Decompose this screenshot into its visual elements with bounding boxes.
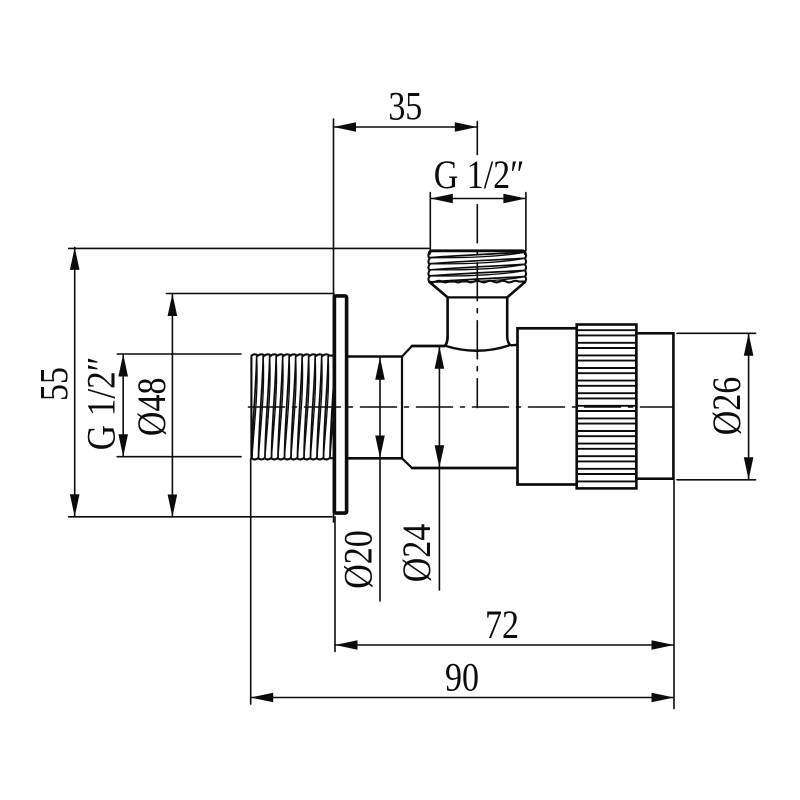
arrow O48 up [168,294,178,317]
arrow O24 down [435,445,445,468]
svg-text:Ø26: Ø26 [706,377,750,436]
outlet thread crest lines [430,252,525,282]
dimension texts [33,85,750,700]
ext line 35 left [333,119,335,522]
arrow 55 down [70,494,80,517]
arrow G1/2top left [430,194,453,204]
dim line G1/2 top [430,198,526,200]
outlet thread G1/2 top edge [429,251,525,254]
outlet taper left side [430,282,448,297]
step face [401,357,403,459]
horizontal centerline [249,406,674,408]
bonnet body [518,328,578,484]
inlet pipe O20 [347,357,402,459]
dim line 55 [74,247,76,516]
ext line O48 top [166,293,334,295]
chamfer top [402,346,412,357]
outlet taper right side [507,282,525,297]
dim line O26 [748,333,750,480]
dim line O20 [379,358,381,602]
outlet thread right serrated edge [525,253,526,282]
arrow G1/2left up [118,354,128,377]
svg-text:G 1/2″: G 1/2″ [434,154,525,198]
dim line O48 [171,294,173,518]
arrowheads [70,122,754,702]
arrow G1/2left down [118,434,128,457]
vertical outlet centerline [476,122,478,155]
svg-text:Ø20: Ø20 [337,530,381,589]
outlet thread left serrated edge [428,253,429,282]
dim line 90 [251,697,674,699]
dim line 35 [334,126,478,128]
svg-text:90: 90 [445,656,479,700]
arrow 35 left [334,122,357,132]
ext line 55 top [69,247,429,249]
arrow O20 up [375,357,385,380]
arrow G1/2top right [503,194,526,204]
outlet neck right side [506,297,509,337]
body/neck intersection arc [445,346,508,351]
body O24 section bottom edge [412,467,518,470]
ext line 72/90 right [673,480,675,709]
svg-text:G 1/2″: G 1/2″ [79,357,124,451]
arrow O26 down [744,457,754,480]
left male thread G1/2 [251,354,335,459]
arrow O20 down [375,436,385,459]
svg-text:Ø48: Ø48 [130,378,174,437]
dim line G1/2 left [122,354,124,457]
arrow O24 up [435,346,445,369]
ext line O26 bottom [677,479,756,481]
ext line O26 top [677,332,756,334]
ext line G1/2 top right [525,193,527,251]
arrow 72 right [652,640,675,650]
ext line 90 left [250,459,252,705]
ext line 72 left [334,517,336,652]
svg-text:Ø24: Ø24 [396,524,440,583]
arrow 90 left [251,693,274,703]
ext line 55 / O48 bottom [69,516,332,518]
outlet taper shoulder [448,296,508,298]
wall flange plate [334,296,346,513]
arrow O48 down [168,495,178,518]
svg-text:55: 55 [33,367,77,401]
arrow 55 up [70,247,80,270]
knurled handle ring [577,325,637,489]
arrow 72 left [335,640,358,650]
outlet thread root wavy edge [429,281,525,283]
ext line G1/2 left bottom [117,456,241,458]
dim line 72 [335,644,674,646]
body O24 section top edge with left neck fillet [412,337,448,346]
ext line G1/2 left top [117,353,241,355]
arrow O26 up [744,333,754,356]
end cap [636,333,673,478]
arrow 90 right [652,693,675,703]
arrow 35 right [455,122,478,132]
neck right fillet to bonnet [507,337,517,346]
ext line G1/2 top left [429,193,431,251]
chamfer bottom [402,458,412,468]
thin dimension and extension lines [69,119,756,709]
svg-text:35: 35 [388,85,422,129]
knurl lines [578,330,635,481]
outlet neck left side [446,297,449,337]
svg-text:72: 72 [485,604,519,648]
dim line O24 [438,347,440,591]
